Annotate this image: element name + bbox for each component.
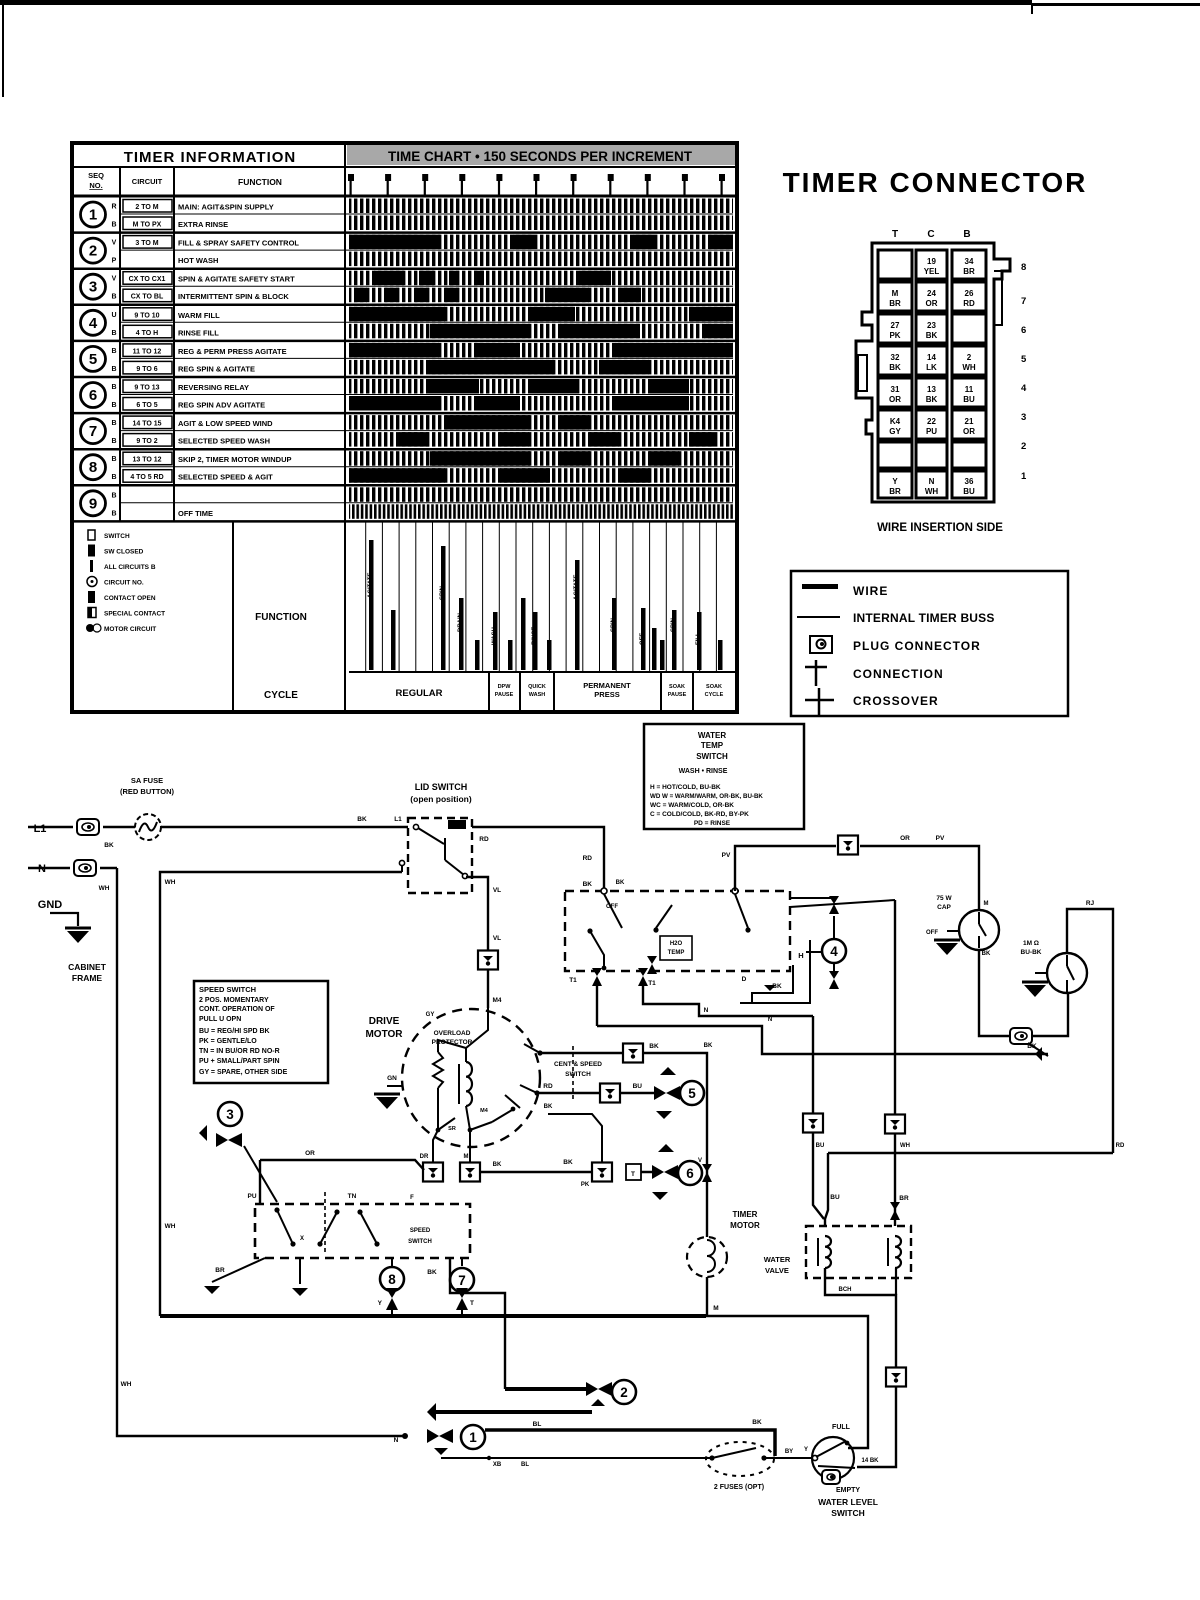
svg-text:WH: WH: [900, 1143, 910, 1149]
wire right trunk to valve: [790, 900, 909, 1226]
wire C1 down to plug oval: [979, 950, 1010, 1036]
indicator H circled 4: [790, 896, 846, 989]
svg-text:SPEED SWITCH: SPEED SWITCH: [199, 985, 256, 994]
wire right loop bottom: [828, 1152, 1113, 1154]
svg-text:4 TO 5 RD: 4 TO 5 RD: [130, 474, 163, 481]
table row 4: [72, 307, 737, 341]
svg-text:V: V: [112, 276, 117, 283]
svg-text:11: 11: [965, 385, 974, 394]
svg-text:M: M: [892, 289, 899, 298]
svg-text:U: U: [111, 312, 116, 319]
svg-text:T: T: [631, 1171, 635, 1178]
svg-text:SWITCH: SWITCH: [104, 533, 130, 540]
node L1 terminal: [28, 819, 135, 849]
svg-text:CYCLE: CYCLE: [705, 692, 724, 698]
timer motor TM: [687, 1164, 760, 1316]
svg-text:PV: PV: [722, 852, 731, 859]
svg-text:BK: BK: [752, 1419, 762, 1426]
svg-text:OR: OR: [305, 1150, 315, 1157]
svg-text:K4: K4: [890, 417, 901, 426]
svg-text:M: M: [713, 1305, 718, 1312]
svg-text:N: N: [394, 1437, 399, 1444]
svg-text:SWITCH: SWITCH: [831, 1508, 865, 1518]
svg-text:WIRE INSERTION SIDE: WIRE INSERTION SIDE: [877, 522, 1003, 534]
svg-text:6 TO 5: 6 TO 5: [136, 402, 157, 409]
svg-text:PULL U OPN: PULL U OPN: [199, 1016, 241, 1023]
svg-text:WASH: WASH: [529, 692, 546, 698]
node circled 1: [394, 1425, 485, 1449]
wire temp switch exit T1: [592, 968, 602, 1026]
svg-text:2: 2: [89, 243, 97, 260]
svg-text:SPECIAL CONTACT: SPECIAL CONTACT: [104, 611, 165, 618]
svg-text:MOTOR CIRCUIT: MOTOR CIRCUIT: [104, 626, 156, 633]
svg-text:WIRE: WIRE: [853, 584, 888, 598]
svg-text:14: 14: [927, 353, 936, 362]
svg-text:B: B: [111, 330, 116, 337]
svg-text:SW CLOSED: SW CLOSED: [104, 549, 144, 556]
svg-text:B: B: [111, 474, 116, 481]
svg-text:Y: Y: [378, 1300, 383, 1307]
svg-text:BL: BL: [521, 1462, 529, 1468]
svg-text:13 TO 12: 13 TO 12: [132, 457, 161, 464]
svg-text:2 POS. MOMENTARY: 2 POS. MOMENTARY: [199, 997, 269, 1004]
table row 3: [72, 271, 737, 305]
water valve box: [764, 1226, 911, 1278]
svg-text:BU: BU: [963, 487, 975, 496]
node circled 6: [652, 1144, 702, 1200]
svg-text:BU: BU: [633, 1083, 643, 1090]
svg-text:11 TO 12: 11 TO 12: [133, 348, 162, 355]
svg-text:OR: OR: [963, 427, 975, 436]
svg-text:BY: BY: [785, 1449, 793, 1455]
svg-text:WASH • RINSE: WASH • RINSE: [679, 768, 728, 775]
svg-text:SA FUSE: SA FUSE: [131, 776, 163, 785]
svg-text:B: B: [111, 366, 116, 373]
node circled 5: [654, 1067, 704, 1119]
wire plug to circled 6: [563, 1159, 660, 1180]
svg-text:BCH: BCH: [839, 1287, 852, 1293]
svg-text:31: 31: [891, 385, 900, 394]
wire plug D to lamp branch: [860, 835, 979, 910]
svg-text:GY: GY: [889, 427, 901, 436]
svg-text:BK: BK: [563, 1159, 573, 1166]
table row 2: [72, 235, 737, 269]
svg-text:PK: PK: [581, 1182, 590, 1188]
wire to circled 7: [450, 1258, 474, 1316]
svg-text:BK: BK: [926, 331, 938, 340]
svg-text:5: 5: [1021, 354, 1027, 365]
svg-text:TIMER INFORMATION: TIMER INFORMATION: [124, 149, 297, 166]
svg-text:SWITCH: SWITCH: [408, 1239, 432, 1245]
svg-text:V: V: [698, 1158, 702, 1164]
svg-text:RD: RD: [963, 299, 975, 308]
svg-text:BU = REG/HI SPD BK: BU = REG/HI SPD BK: [199, 1028, 270, 1035]
svg-text:TEMP: TEMP: [668, 950, 685, 956]
svg-text:CIRCUIT: CIRCUIT: [132, 177, 163, 186]
plug connector on line 5a: [623, 1044, 643, 1063]
svg-text:REGULAR: REGULAR: [396, 688, 443, 699]
svg-text:V: V: [112, 240, 117, 247]
svg-text:SOAK: SOAK: [669, 684, 685, 690]
svg-text:C: C: [927, 229, 934, 240]
plug connector 6: [885, 1115, 905, 1134]
svg-text:(open position): (open position): [410, 794, 472, 804]
svg-text:QUICK: QUICK: [528, 684, 546, 690]
svg-text:Y: Y: [804, 1447, 808, 1453]
svg-text:9 TO 2: 9 TO 2: [136, 438, 157, 445]
svg-text:4: 4: [1021, 383, 1027, 394]
svg-text:WATER LEVEL: WATER LEVEL: [818, 1497, 878, 1507]
svg-text:SR: SR: [448, 1126, 456, 1132]
svg-text:WH: WH: [121, 1381, 132, 1388]
svg-text:FILL: FILL: [696, 632, 702, 645]
svg-text:B: B: [963, 229, 970, 240]
svg-text:TEMP: TEMP: [701, 741, 724, 750]
symbol legend box: [791, 571, 1068, 716]
svg-text:BK: BK: [357, 816, 367, 823]
svg-text:7: 7: [458, 1273, 466, 1288]
svg-text:PU: PU: [247, 1193, 256, 1200]
svg-text:M TO PX: M TO PX: [133, 222, 162, 229]
svg-text:SEQ: SEQ: [88, 171, 104, 180]
timer information table: [72, 143, 737, 712]
svg-text:B: B: [111, 384, 116, 391]
node circled 3: [199, 1102, 277, 1202]
svg-text:1: 1: [1021, 471, 1027, 482]
svg-text:SELECTED SPEED WASH: SELECTED SPEED WASH: [178, 437, 270, 446]
svg-text:7: 7: [89, 423, 97, 440]
svg-text:CIRCUIT NO.: CIRCUIT NO.: [104, 580, 144, 587]
svg-text:7: 7: [1021, 296, 1026, 307]
svg-text:H2O: H2O: [670, 941, 683, 947]
svg-text:CONNECTION: CONNECTION: [853, 667, 944, 681]
wire to circled 8: [378, 1258, 404, 1316]
wire circled1 upper run: [485, 1419, 775, 1456]
svg-text:26: 26: [965, 289, 974, 298]
wire x813 down to valve: [813, 1016, 824, 1219]
svg-text:SWITCH: SWITCH: [565, 1071, 591, 1078]
timer connector body: [856, 229, 1027, 502]
svg-text:AGIT & LOW SPEED WIND: AGIT & LOW SPEED WIND: [178, 419, 273, 428]
svg-text:SKIP 2, TIMER MOTOR WINDUP: SKIP 2, TIMER MOTOR WINDUP: [178, 455, 291, 464]
svg-text:BK: BK: [583, 881, 593, 888]
svg-text:GY: GY: [426, 1012, 435, 1018]
svg-text:R: R: [111, 204, 116, 211]
svg-text:HOT WASH: HOT WASH: [178, 256, 218, 265]
svg-text:LK: LK: [926, 363, 937, 372]
cent and speed switch: [520, 1044, 602, 1100]
svg-text:BK: BK: [104, 842, 114, 849]
svg-text:SPIN & AGITATE SAFETY START: SPIN & AGITATE SAFETY START: [178, 275, 295, 284]
svg-text:CAP: CAP: [937, 904, 951, 911]
plug connector on line 5b: [600, 1084, 620, 1103]
svg-text:2: 2: [967, 353, 972, 362]
svg-text:1: 1: [469, 1430, 477, 1445]
svg-text:ALL CIRCUITS B: ALL CIRCUITS B: [104, 564, 156, 571]
svg-text:WH: WH: [925, 487, 939, 496]
svg-text:BR: BR: [963, 267, 975, 276]
svg-text:X: X: [300, 1236, 304, 1242]
svg-text:32: 32: [891, 353, 900, 362]
svg-text:AGITATE: AGITATE: [574, 575, 580, 600]
svg-text:34: 34: [965, 257, 974, 266]
svg-text:MOTOR: MOTOR: [730, 1221, 760, 1230]
svg-text:BK: BK: [616, 880, 625, 886]
svg-text:B: B: [111, 438, 116, 445]
lid switch S1: [399, 782, 472, 893]
svg-text:3: 3: [226, 1107, 234, 1122]
svg-text:RINSE: RINSE: [532, 627, 538, 645]
plug connector lamp bottom: [1010, 1028, 1032, 1044]
svg-text:PV: PV: [936, 835, 945, 842]
svg-text:TN = IN BU/OR RD NO-R: TN = IN BU/OR RD NO-R: [199, 1048, 280, 1055]
svg-text:4: 4: [830, 944, 838, 959]
svg-text:WATER: WATER: [764, 1255, 791, 1264]
svg-text:5: 5: [688, 1086, 696, 1101]
plug connector 5: [803, 1114, 823, 1133]
svg-text:Y: Y: [892, 477, 898, 486]
svg-text:FUNCTION: FUNCTION: [238, 177, 282, 187]
svg-text:PAUSE: PAUSE: [668, 692, 687, 698]
svg-text:BK: BK: [1027, 1043, 1037, 1050]
svg-text:TN: TN: [348, 1193, 357, 1200]
svg-text:BL: BL: [533, 1421, 542, 1428]
svg-text:AGITATE: AGITATE: [368, 573, 374, 598]
svg-text:OFF: OFF: [640, 633, 646, 645]
svg-text:8: 8: [388, 1272, 396, 1287]
svg-text:24: 24: [927, 289, 936, 298]
svg-text:TIMER CONNECTOR: TIMER CONNECTOR: [783, 167, 1088, 198]
node N terminal: [28, 860, 117, 892]
svg-text:M: M: [984, 901, 989, 907]
svg-text:CX TO BL: CX TO BL: [131, 294, 164, 301]
svg-text:2: 2: [620, 1385, 628, 1400]
svg-text:2 TO M: 2 TO M: [135, 204, 158, 211]
wire labels misc: [300, 901, 1125, 1242]
svg-text:CONT. OPERATION OF: CONT. OPERATION OF: [199, 1006, 275, 1013]
wire speed box to circled 2 riser: [427, 1258, 505, 1389]
svg-text:WATER: WATER: [698, 731, 727, 740]
wire PV to plug D: [722, 846, 836, 891]
wire lid switch to motor via plug A: [466, 877, 501, 950]
svg-text:36: 36: [965, 477, 974, 486]
svg-text:3: 3: [1021, 412, 1026, 423]
svg-text:9 TO 6: 9 TO 6: [136, 366, 157, 373]
wire temp exit to lamp feed: [597, 1026, 1048, 1061]
svg-text:FILL & SPRAY SAFETY CONTROL: FILL & SPRAY SAFETY CONTROL: [178, 239, 299, 248]
svg-text:MOTOR: MOTOR: [365, 1029, 403, 1040]
svg-text:BK: BK: [427, 1269, 437, 1276]
svg-text:PERMANENT: PERMANENT: [583, 681, 631, 690]
svg-text:14 BK: 14 BK: [861, 1458, 879, 1464]
svg-text:9 TO 10: 9 TO 10: [134, 312, 159, 319]
svg-text:19: 19: [927, 257, 936, 266]
svg-text:B: B: [111, 420, 116, 427]
svg-text:GND: GND: [38, 899, 63, 911]
table row 8: [72, 451, 737, 485]
svg-text:B: B: [111, 510, 116, 517]
svg-text:BU-BK: BU-BK: [1021, 949, 1042, 956]
svg-text:(RED BUTTON): (RED BUTTON): [120, 787, 175, 796]
svg-text:B: B: [111, 456, 116, 463]
svg-text:N: N: [929, 477, 935, 486]
water temp switch info box: [644, 724, 804, 829]
wire bus to water level sw: [706, 1316, 868, 1448]
table legend area: [86, 521, 737, 712]
svg-text:RD: RD: [543, 1083, 553, 1090]
wire page top border: [0, 0, 1200, 14]
table row 7: [72, 415, 737, 449]
water level switch: [764, 1424, 878, 1518]
wire cent sw to circled 5: [537, 1043, 707, 1237]
svg-text:OR: OR: [900, 835, 910, 842]
plug connector B: [886, 1368, 906, 1387]
svg-text:OFF: OFF: [926, 930, 938, 936]
svg-text:RD: RD: [1116, 1143, 1125, 1149]
svg-text:EXTRA RINSE: EXTRA RINSE: [178, 220, 228, 229]
svg-text:2: 2: [1021, 441, 1026, 452]
wire oval to C2 loop: [1028, 994, 1068, 1056]
svg-text:PK = GENTLE/LO: PK = GENTLE/LO: [199, 1038, 257, 1045]
svg-text:H = HOT/COLD, BU-BK: H = HOT/COLD, BU-BK: [650, 784, 721, 791]
svg-text:REG SPIN & AGITATE: REG SPIN & AGITATE: [178, 364, 255, 373]
svg-text:L1: L1: [394, 816, 402, 823]
wire neutral run left: [117, 868, 405, 1436]
svg-text:H: H: [798, 951, 803, 960]
svg-text:8: 8: [1021, 262, 1026, 273]
svg-text:OR: OR: [926, 299, 938, 308]
svg-text:BK: BK: [889, 363, 901, 372]
capacitor lamp C1: [926, 895, 999, 955]
svg-text:CABINET: CABINET: [68, 962, 107, 972]
svg-text:PLUG CONNECTOR: PLUG CONNECTOR: [853, 639, 981, 653]
speed switch info box: [194, 981, 328, 1083]
svg-text:BR: BR: [215, 1267, 225, 1274]
svg-text:GY = SPARE, OTHER SIDE: GY = SPARE, OTHER SIDE: [199, 1069, 288, 1076]
svg-text:INTERNAL TIMER BUSS: INTERNAL TIMER BUSS: [853, 611, 995, 625]
svg-text:REG & PERM PRESS AGITATE: REG & PERM PRESS AGITATE: [178, 347, 287, 356]
plug connector D: [838, 836, 858, 855]
svg-text:OFF TIME: OFF TIME: [178, 509, 213, 518]
svg-text:FRAME: FRAME: [72, 973, 103, 983]
svg-text:9 TO 13: 9 TO 13: [134, 385, 159, 392]
svg-text:NO.: NO.: [89, 181, 102, 190]
svg-text:SPEED: SPEED: [410, 1228, 431, 1234]
svg-text:M4: M4: [480, 1108, 489, 1114]
svg-text:C = COLD/COLD, BK-RD, BY-PK: C = COLD/COLD, BK-RD, BY-PK: [650, 811, 749, 818]
svg-text:BK: BK: [926, 395, 938, 404]
svg-text:27: 27: [891, 321, 900, 330]
svg-text:PD = RINSE: PD = RINSE: [694, 820, 731, 827]
svg-text:SPIN: SPIN: [671, 618, 677, 632]
svg-text:RD: RD: [479, 836, 489, 843]
svg-text:VL: VL: [493, 887, 501, 894]
svg-text:PAUSE: PAUSE: [495, 692, 514, 698]
svg-text:SPIN: SPIN: [440, 586, 446, 600]
svg-text:B: B: [111, 222, 116, 229]
svg-text:VL: VL: [493, 935, 501, 942]
svg-text:T1: T1: [569, 977, 577, 984]
svg-text:B: B: [111, 294, 116, 301]
svg-text:CX TO CX1: CX TO CX1: [129, 276, 166, 283]
wire lid switch to water temp: [472, 827, 604, 891]
svg-text:BU: BU: [963, 395, 975, 404]
svg-text:L1: L1: [34, 823, 47, 835]
svg-text:CONTACT OPEN: CONTACT OPEN: [104, 595, 156, 602]
svg-text:OVERLOAD: OVERLOAD: [434, 1030, 471, 1037]
svg-text:N: N: [704, 1007, 709, 1014]
svg-text:WD W = WARM/WARM, OR-BK, BU-BK: WD W = WARM/WARM, OR-BK, BU-BK: [650, 793, 763, 800]
svg-text:BK: BK: [493, 1162, 502, 1168]
svg-text:8: 8: [89, 459, 97, 476]
svg-text:PRESS: PRESS: [594, 690, 619, 699]
svg-text:OR: OR: [889, 395, 901, 404]
svg-text:MAIN: AGIT&SPIN SUPPLY: MAIN: AGIT&SPIN SUPPLY: [178, 203, 274, 212]
wire motor plugs to line 6: [420, 1154, 592, 1182]
table row 5: [72, 343, 737, 377]
svg-text:REVERSING RELAY: REVERSING RELAY: [178, 383, 249, 392]
svg-text:BR: BR: [899, 1195, 909, 1202]
svg-text:M: M: [464, 1154, 469, 1160]
svg-text:FULL: FULL: [832, 1424, 851, 1431]
svg-text:WH: WH: [99, 885, 110, 892]
capacitor lamp C2: [1021, 940, 1087, 997]
svg-text:BK: BK: [704, 1043, 713, 1049]
svg-text:M4: M4: [492, 997, 501, 1004]
svg-text:CROSSOVER: CROSSOVER: [853, 694, 939, 708]
svg-text:CENT & SPEED: CENT & SPEED: [554, 1061, 602, 1068]
svg-text:T: T: [892, 229, 898, 240]
svg-text:4: 4: [89, 315, 98, 332]
wire speed sw feed: [260, 1150, 424, 1204]
svg-text:23: 23: [927, 321, 936, 330]
speed switch box: [247, 1192, 470, 1258]
wire L1 to lid switch: [161, 816, 408, 827]
svg-text:REG SPIN ADV AGITATE: REG SPIN ADV AGITATE: [178, 401, 265, 410]
table row 1: [72, 199, 737, 233]
svg-text:EMPTY: EMPTY: [836, 1487, 860, 1494]
svg-text:LID SWITCH: LID SWITCH: [415, 782, 468, 792]
svg-text:BU: BU: [830, 1194, 840, 1201]
fuse F1 (red button): [120, 776, 175, 840]
table row 9: [72, 487, 737, 521]
svg-text:6: 6: [1021, 325, 1026, 336]
svg-text:BU: BU: [816, 1143, 825, 1149]
svg-text:SWITCH: SWITCH: [696, 752, 728, 761]
svg-text:3 TO M: 3 TO M: [135, 240, 158, 247]
svg-text:2 FUSES (OPT): 2 FUSES (OPT): [714, 1484, 764, 1491]
svg-text:1M Ω: 1M Ω: [1023, 940, 1039, 947]
wire plug B to water level switch: [857, 1387, 896, 1467]
wire motor stub to plug 6: [548, 1114, 602, 1162]
node circled 2: [427, 1380, 636, 1421]
svg-text:YEL: YEL: [924, 267, 940, 276]
plug connector A: [478, 951, 502, 1009]
neutral bus thick: [160, 1314, 706, 1318]
wire temp sub box: [740, 940, 810, 1003]
svg-text:75 W: 75 W: [936, 895, 952, 902]
svg-text:B: B: [111, 348, 116, 355]
svg-text:WH: WH: [962, 363, 976, 372]
svg-text:CYCLE: CYCLE: [264, 690, 298, 701]
svg-text:WC = WARM/COLD, OR-BK: WC = WARM/COLD, OR-BK: [650, 802, 734, 809]
svg-text:DR: DR: [420, 1154, 429, 1160]
svg-text:F: F: [410, 1195, 414, 1201]
svg-text:21: 21: [965, 417, 974, 426]
svg-text:3: 3: [89, 279, 97, 296]
drive motor M1: [365, 1008, 540, 1162]
wire speed sw exits left: [204, 1258, 308, 1296]
